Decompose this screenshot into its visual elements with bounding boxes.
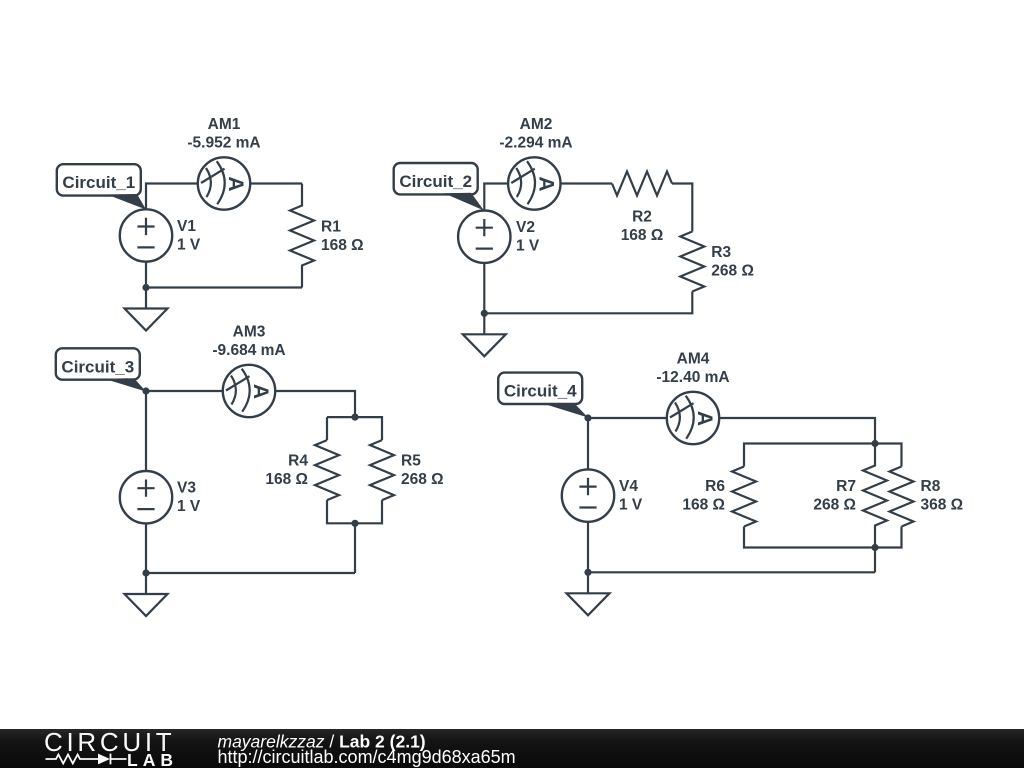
svg-text:AM4: AM4 [677, 350, 710, 367]
svg-text:-5.952 mA: -5.952 mA [187, 134, 260, 151]
svg-text:Circuit_4: Circuit_4 [504, 382, 577, 401]
resistor R4 [315, 440, 339, 500]
svg-text:R3: R3 [711, 244, 731, 261]
label R8 [921, 478, 964, 514]
label V3 [177, 480, 201, 516]
svg-text:1 V: 1 V [619, 497, 643, 514]
svg-text:V1: V1 [177, 218, 196, 235]
wire right drop c4 [874, 548, 876, 573]
resistor R6 [732, 467, 756, 527]
label AM3 [212, 323, 285, 359]
svg-text:268 Ω: 268 Ω [711, 263, 754, 280]
svg-text:LAB: LAB [127, 750, 178, 768]
voltage source V2 [458, 211, 510, 263]
wire bottom c4 [588, 522, 875, 573]
node junction [871, 544, 878, 551]
svg-text:AM2: AM2 [520, 116, 553, 133]
svg-text:A: A [249, 384, 272, 399]
resistor R3 [680, 232, 704, 292]
wire right drop c3 [354, 523, 356, 573]
svg-text:1 V: 1 V [516, 238, 540, 255]
svg-text:R6: R6 [705, 478, 725, 495]
svg-text:A: A [693, 411, 716, 426]
svg-text:-2.294 mA: -2.294 mA [499, 134, 572, 151]
svg-text:R7: R7 [836, 478, 856, 495]
svg-text:AM1: AM1 [208, 116, 241, 133]
svg-text:A: A [224, 176, 247, 191]
svg-text:1 V: 1 V [177, 498, 201, 515]
label R6 [682, 478, 725, 514]
label R2 [621, 208, 664, 244]
resistor R7 [863, 444, 887, 548]
svg-text:268 Ω: 268 Ω [813, 497, 856, 514]
svg-text:-12.40 mA: -12.40 mA [656, 369, 729, 386]
svg-text:168 Ω: 168 Ω [321, 237, 364, 254]
callout Circuit_2 [394, 163, 484, 211]
callout Circuit_3 [56, 348, 146, 391]
wire top c4 [588, 418, 875, 444]
ammeter AM2 [508, 157, 560, 209]
svg-text:http://circuitlab.com/c4mg9d68: http://circuitlab.com/c4mg9d68xa65m [218, 747, 516, 767]
svg-text:1 V: 1 V [177, 237, 201, 254]
svg-text:Circuit_1: Circuit_1 [62, 173, 135, 192]
node junction [584, 569, 591, 576]
voltage source V4 [562, 469, 614, 521]
svg-text:R4: R4 [288, 453, 308, 470]
wire parallel top bus c4 [744, 444, 902, 467]
label V2 [516, 219, 540, 255]
svg-text:AM3: AM3 [233, 323, 266, 340]
svg-text:R8: R8 [921, 478, 941, 495]
svg-text:-9.684 mA: -9.684 mA [212, 342, 285, 359]
wire left c4 [587, 418, 589, 469]
wire top c3 [146, 391, 355, 417]
callout Circuit_4 [498, 373, 588, 418]
wire left c3 [145, 391, 147, 471]
resistor R1 [290, 184, 314, 288]
svg-text:168 Ω: 168 Ω [621, 227, 664, 244]
node junction [481, 310, 488, 317]
ammeter AM3 [223, 365, 275, 417]
svg-text:A: A [534, 176, 557, 191]
wire bottom c2 [484, 263, 692, 313]
svg-text:368 Ω: 368 Ω [921, 497, 964, 514]
svg-text:V3: V3 [177, 480, 196, 497]
resistor R5 [370, 440, 394, 500]
label AM4 [656, 350, 729, 386]
svg-text:R2: R2 [632, 208, 652, 225]
wire parallel top bus c3 [327, 417, 382, 440]
node junction [584, 414, 591, 421]
svg-text:V2: V2 [516, 219, 535, 236]
svg-text:V4: V4 [619, 478, 638, 495]
voltage source V1 [120, 209, 172, 261]
svg-text:Circuit_3: Circuit_3 [61, 357, 134, 376]
node junction [142, 284, 149, 291]
svg-text:R5: R5 [401, 453, 421, 470]
svg-text:R1: R1 [321, 219, 341, 236]
wire top c1 [146, 184, 302, 210]
label R1 [321, 219, 364, 255]
wire bottom c3 [146, 523, 355, 573]
label AM2 [499, 116, 572, 152]
ammeter AM4 [667, 392, 719, 444]
label V1 [177, 218, 201, 254]
resistor R2 [612, 172, 672, 196]
label V4 [619, 478, 643, 514]
label AM1 [187, 116, 260, 152]
svg-text:Circuit_2: Circuit_2 [399, 172, 472, 191]
label R7 [813, 478, 856, 514]
label R4 [265, 453, 308, 489]
ammeter AM1 [198, 157, 250, 209]
resistor R8 [890, 467, 914, 527]
wire bottom c1 [146, 262, 302, 288]
wire parallel bottom bus c4 [744, 527, 902, 548]
label R5 [401, 453, 444, 489]
svg-text:168 Ω: 168 Ω [265, 471, 308, 488]
ground [125, 573, 168, 616]
node junction [142, 569, 149, 576]
wire parallel bottom bus c3 [327, 500, 382, 523]
svg-text:168 Ω: 168 Ω [682, 497, 725, 514]
footer bar [0, 729, 1024, 768]
CircuitLab logo resistor-diode glyph [46, 754, 127, 765]
callout Circuit_1 [57, 164, 146, 209]
node junction [351, 520, 358, 527]
ground [463, 313, 506, 356]
node junction [142, 387, 149, 394]
ground [567, 572, 610, 615]
voltage source V3 [120, 471, 172, 523]
wire top c2 [484, 184, 612, 211]
ground [125, 288, 168, 331]
label R3 [711, 244, 754, 280]
svg-text:268 Ω: 268 Ω [401, 471, 444, 488]
wire corner c2 [672, 184, 692, 232]
node junction [871, 440, 878, 447]
node junction [351, 414, 358, 421]
